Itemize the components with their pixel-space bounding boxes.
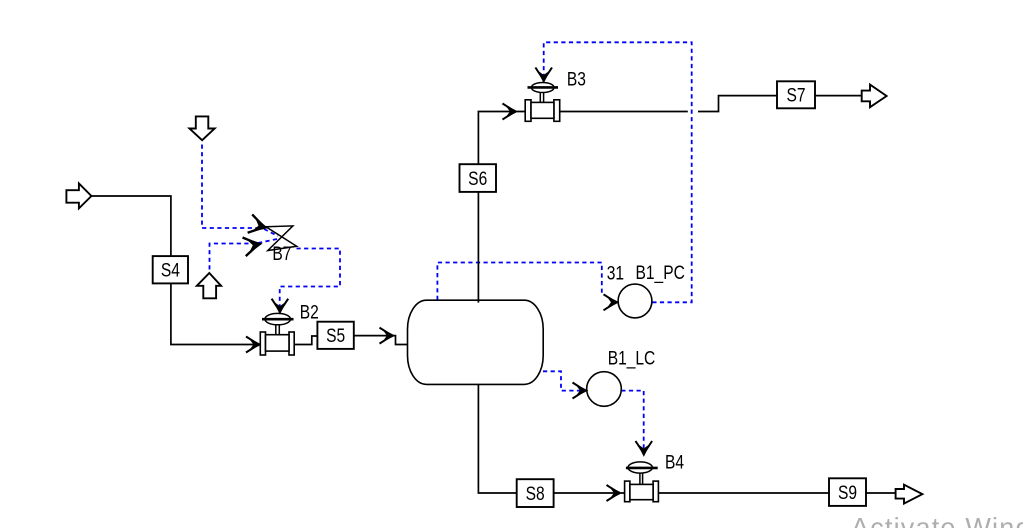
signal arrow 2 into valve B7	[243, 235, 263, 257]
wire: S8 to valve B4	[554, 492, 625, 494]
wire: valve B3 to S7 (gap at signal crossing)	[560, 96, 777, 112]
signal wire: top port arrow to valve B7	[202, 145, 278, 237]
svg-text:S7: S7	[786, 84, 805, 106]
signal wire: vessel B1 to controller B1_PC	[437, 263, 601, 301]
svg-text:S5: S5	[326, 325, 345, 347]
svg-text:S4: S4	[161, 259, 180, 281]
signal wire: controller B1_PC to valve B3 actuator	[544, 42, 692, 302]
svg-text:B3: B3	[567, 68, 586, 90]
flow arrow into vessel	[380, 328, 395, 344]
product port arrow S7 (hollow)	[862, 85, 887, 108]
valve B2	[260, 313, 294, 355]
wire: S7 to product port	[815, 95, 862, 97]
svg-text:S6: S6	[468, 167, 487, 189]
signal arrow into B1_LC	[573, 383, 588, 399]
flow arrow into valve B2	[246, 337, 261, 353]
svg-text:B1_PC: B1_PC	[636, 261, 685, 283]
signal wire: lower port arrow to valve B7	[210, 239, 278, 270]
stream label box S6	[460, 164, 497, 192]
stream label box S5	[317, 322, 353, 349]
valve B3	[525, 83, 560, 122]
svg-text:31: 31	[607, 262, 624, 284]
svg-text:S9: S9	[838, 481, 857, 503]
signal arrow onto valve B4 actuator	[636, 441, 653, 456]
signal arrow into B1_PC	[604, 294, 619, 310]
signal arrow onto valve B3 actuator	[535, 68, 552, 83]
signal arrow 1 into valve B7	[248, 214, 269, 236]
controller B1_PC	[618, 284, 652, 318]
stream label box S8	[517, 479, 554, 507]
wire: S5 into vessel B1	[354, 336, 409, 345]
valve B7 (bowtie)	[266, 226, 297, 251]
wire: vessel top to valve B3	[478, 112, 525, 303]
svg-text:S8: S8	[526, 482, 545, 504]
stream label box S7	[777, 81, 815, 108]
signal wire: controller B1_LC to valve B4 actuator	[621, 391, 643, 450]
unconnected port arrow (down, hollow)	[189, 116, 214, 140]
stream label box S4	[153, 256, 188, 283]
vessel B1 (flash drum)	[408, 300, 544, 384]
wire: valve B4 to S9	[658, 492, 829, 494]
signal arrow onto valve B2 actuator	[272, 299, 289, 314]
valve B4	[625, 462, 659, 502]
wire: vessel bottom to S8	[478, 384, 516, 493]
wire: feed to S4 and down to valve B2	[91, 196, 257, 345]
svg-text:Activate Windows: Activate Windows	[851, 513, 1023, 528]
wire: S9 to product port	[866, 492, 896, 494]
signal wire: valve B7 to valve B2 actuator	[280, 249, 340, 307]
svg-text:B2: B2	[300, 301, 319, 323]
signal wire: vessel B1 to controller B1_LC	[543, 371, 581, 390]
flow arrow into valve B4	[607, 485, 622, 501]
svg-text:B1_LC: B1_LC	[608, 347, 656, 369]
flow arrow into valve B3	[503, 104, 518, 120]
stream label box S9	[829, 478, 866, 506]
product port arrow S9 (hollow)	[896, 485, 923, 504]
wire: valve B2 to S5	[294, 336, 317, 345]
svg-text:B7: B7	[272, 243, 291, 265]
controller B1_LC	[587, 372, 622, 407]
feed port arrow (hollow)	[66, 183, 91, 208]
svg-text:B4: B4	[665, 451, 684, 473]
unconnected port arrow (up, hollow)	[197, 273, 221, 298]
